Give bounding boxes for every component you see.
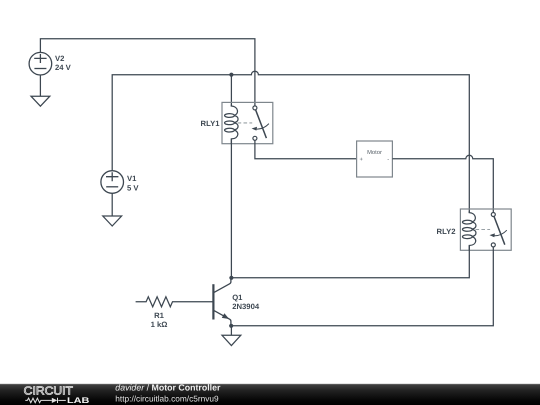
node: junction 5V net to RLY1 coil [229,73,233,77]
ground under Q1 [222,335,241,345]
svg-text:http://circuitlab.com/c5rnvu9: http://circuitlab.com/c5rnvu9 [115,393,219,403]
relay RLY1 switch pin bottom [253,136,257,140]
motor M1 box [357,141,393,177]
svg-text:-: - [387,157,389,163]
wire: V2 bottom to ground [39,75,41,96]
svg-text:1 kΩ: 1 kΩ [151,320,168,329]
svg-text:24 V: 24 V [55,63,72,72]
svg-text:V1: V1 [127,174,137,183]
relay RLY2 box [460,209,511,250]
transistor Q1 [213,278,231,326]
voltage source V1 [101,171,124,194]
label V1 5 V [127,174,139,192]
CircuitLab logo resistor-diode squiggle [25,398,66,403]
relay RLY1 switch arrow [256,124,269,129]
wire: V1 bottom to ground [111,193,113,216]
relay RLY2 switch arrow [494,230,507,235]
svg-text:LAB: LAB [67,396,90,405]
svg-text:V2: V2 [55,54,64,63]
wire: emitter node to ground [230,326,232,336]
wire: junction to RLY1 coil top [230,75,232,107]
svg-text:RLY2: RLY2 [437,227,456,236]
relay RLY1 switch blade [256,110,267,138]
relay RLY2 switch blade [494,216,505,244]
svg-text:Motor: Motor [367,150,382,156]
wire: RLY1 coil bottom down to collector node [230,139,232,278]
node: emitter junction [229,324,233,328]
node: collector junction [229,276,233,280]
wire: RLY2 switch bottom to emitter node [231,247,493,326]
svg-text:5 V: 5 V [127,183,139,192]
relay RLY1 box [222,102,273,143]
resistor R1 [136,297,214,307]
svg-text:2N3904: 2N3904 [232,302,260,311]
relay RLY1 switch pin top [253,106,257,110]
relay RLY1 dashed link [238,122,253,124]
relay RLY2 switch pin top [491,213,495,217]
wire: RLY1 switch bottom to Motor + [255,140,357,159]
label R1 1 kOhm [151,311,168,329]
voltage source V2 [29,52,52,75]
svg-text:R1: R1 [154,311,165,320]
wire: RLY2 coil bottom to collector node [231,245,469,277]
label Q1 2N3904 [232,293,260,311]
svg-text:Q1: Q1 [232,293,243,302]
svg-text:+: + [360,157,364,163]
ground under V2 [31,96,50,106]
relay RLY2 switch pin bottom [491,243,495,247]
wire: V1 top to RLY2 coil top with hop over x=255 (net 5V) [112,71,469,213]
footer bar [0,384,540,405]
ground under V1 [103,216,122,226]
svg-text:CIRCUIT: CIRCUIT [24,386,73,398]
relay RLY2 dashed link [476,229,491,231]
svg-text:RLY1: RLY1 [201,119,221,128]
wire: Motor - to RLY2 switch top with hop over x=469 [392,155,493,212]
label V2 24 V [55,54,72,72]
svg-text:davider / Motor Controller: davider / Motor Controller [115,382,221,392]
wire: V2 top to RLY1 switch top (net 24V) [40,39,255,106]
relay RLY2 coil [462,211,475,250]
relay RLY1 coil [225,105,238,144]
